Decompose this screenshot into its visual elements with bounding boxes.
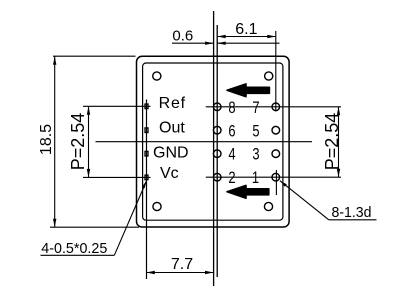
svg-text:1: 1 — [252, 168, 259, 187]
dimension 18.5 — [38, 56, 139, 227]
pin 1 — [272, 173, 280, 181]
leader 8-1.3d — [280, 181, 377, 221]
svg-text:8: 8 — [228, 98, 235, 117]
mounting hole top-right — [265, 72, 273, 80]
pin square Ref — [145, 104, 148, 109]
row line pins 2-1 — [206, 176, 341, 178]
package outline inner — [143, 63, 283, 220]
svg-text:P=2.54: P=2.54 — [322, 113, 342, 171]
svg-text:8-1.3d: 8-1.3d — [332, 204, 372, 221]
dimension P=2.54 left — [68, 106, 151, 177]
pin square Vc — [145, 175, 148, 180]
pin 6 — [213, 126, 221, 134]
row line pins 8-7 — [206, 106, 341, 108]
pin 2 — [213, 173, 221, 181]
svg-text:4: 4 — [228, 145, 235, 164]
svg-text:2: 2 — [228, 168, 235, 187]
pin 8 — [213, 103, 221, 111]
svg-text:Vc: Vc — [160, 165, 179, 182]
svg-text:6.1: 6.1 — [235, 21, 257, 38]
vertical center line — [213, 11, 215, 286]
svg-text:Out: Out — [159, 120, 185, 137]
mounting hole bottom-right — [264, 202, 272, 210]
svg-text:Ref: Ref — [159, 95, 186, 112]
svg-text:0.6: 0.6 — [172, 27, 193, 44]
mounting hole bottom-left — [153, 202, 161, 210]
horizontal center line — [96, 141, 313, 143]
svg-text:GND: GND — [153, 144, 189, 161]
svg-text:18.5: 18.5 — [38, 124, 55, 155]
pin 3 — [272, 150, 280, 158]
svg-text:6: 6 — [228, 121, 235, 140]
pin square Out — [145, 128, 148, 133]
svg-text:4-0.5*0.25: 4-0.5*0.25 — [41, 240, 107, 257]
pin 5 — [272, 126, 280, 134]
svg-text:7: 7 — [252, 98, 259, 117]
package outline outer — [137, 56, 290, 227]
leader 4-0.5*0.25 — [41, 181, 147, 257]
polarity arrow top — [227, 84, 269, 97]
polarity arrow bottom — [227, 185, 269, 198]
svg-text:P=2.54: P=2.54 — [68, 113, 88, 171]
left pin column line — [146, 100, 148, 280]
extension line through pin 7 — [275, 31, 277, 112]
pin 7 — [272, 103, 280, 111]
svg-text:7.7: 7.7 — [171, 256, 193, 273]
dimension 6.1 — [217, 21, 276, 38]
dimension P=2.54 right — [322, 107, 342, 177]
extension line through pin 1 — [275, 170, 277, 195]
dimension 0.6 — [172, 27, 280, 45]
pin 4 — [213, 150, 221, 158]
pin square GND — [145, 151, 148, 156]
mounting hole top-left — [153, 72, 161, 80]
svg-text:5: 5 — [252, 121, 259, 140]
dimension 7.7 — [146, 256, 213, 274]
svg-text:3: 3 — [252, 145, 259, 164]
pin column center line — [216, 25, 218, 277]
